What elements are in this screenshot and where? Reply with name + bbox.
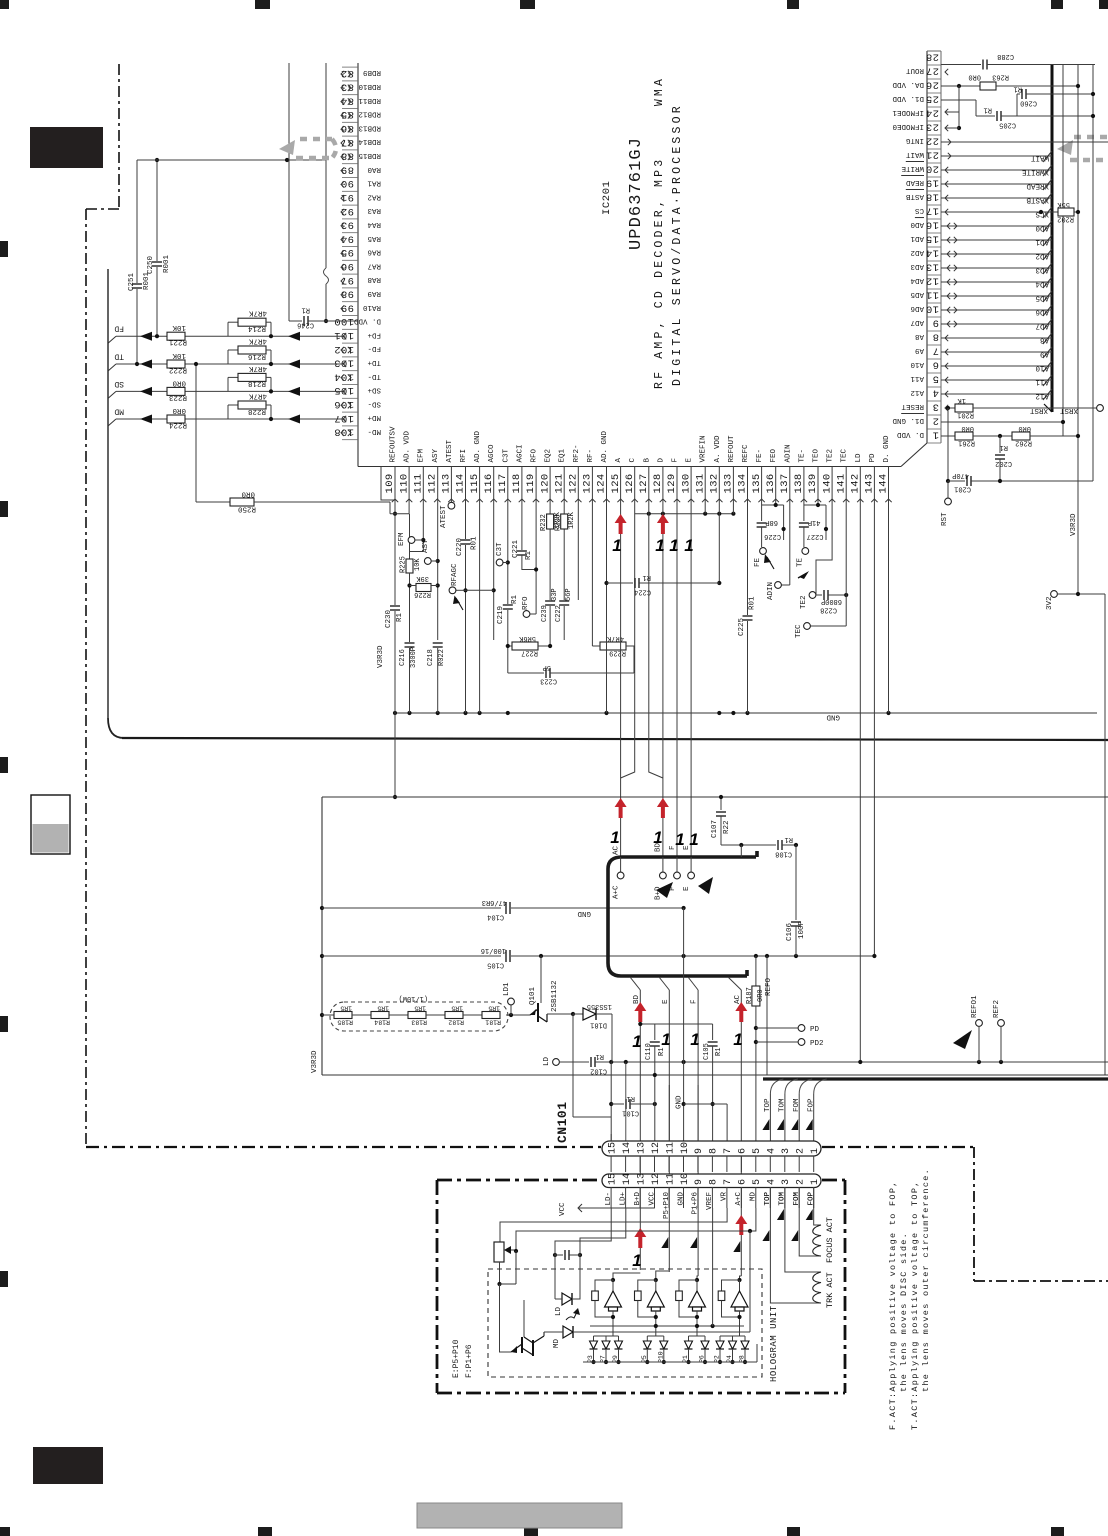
svg-text:R201: R201	[957, 411, 974, 419]
monitor diode MD	[563, 1326, 573, 1338]
svg-text:8: 8	[709, 1148, 720, 1154]
capacitor C260 R1	[1016, 94, 1018, 116]
svg-text:ASY: ASY	[422, 539, 430, 553]
svg-text:132: 132	[709, 473, 721, 493]
capacitor laser decoupling	[553, 1253, 557, 1257]
svg-text:C3T: C3T	[496, 542, 504, 556]
analog block bottom edge	[322, 1074, 1108, 1076]
svg-text:PD: PD	[869, 453, 877, 463]
svg-text:1: 1	[733, 1030, 742, 1049]
svg-text:5R6K: 5R6K	[518, 634, 536, 642]
wire Q101 emitter to CN14	[572, 1014, 574, 1117]
svg-text:AD2: AD2	[1035, 252, 1049, 260]
wire pin134 REFC / capacitor C225 R01	[747, 467, 749, 714]
capacitor C223 5P loop	[508, 672, 544, 674]
svg-text:RA10: RA10	[362, 303, 381, 311]
resistor R181 1R5	[482, 1012, 500, 1019]
photodiode P10	[663, 1336, 665, 1341]
wire pin139 TEO	[817, 467, 819, 506]
svg-text:R1: R1	[302, 306, 310, 314]
connector CN101 row1	[602, 1141, 821, 1156]
capacitor C101 R1 net	[610, 1062, 612, 1143]
svg-text:RA2: RA2	[367, 192, 381, 200]
laser diode LD	[554, 1294, 556, 1299]
svg-text:114: 114	[455, 473, 467, 493]
svg-text:C227: C227	[807, 532, 824, 540]
svg-text:4R7K: 4R7K	[248, 337, 267, 345]
svg-text:AD7: AD7	[1035, 322, 1049, 330]
svg-text:1R5: 1R5	[340, 1005, 352, 1012]
wire pin112 ASY / terminal ASY	[437, 467, 439, 641]
svg-text:R183: R183	[411, 1019, 427, 1026]
svg-text:the lens moves DISC side.: the lens moves DISC side.	[899, 1232, 909, 1392]
photodiode common rail	[583, 1361, 757, 1363]
oval resistor pack R181-R185 1R5 (1/10W)	[330, 1002, 508, 1031]
svg-text:AD0: AD0	[1035, 224, 1049, 232]
svg-text:MD: MD	[114, 407, 124, 416]
svg-text:5P: 5P	[543, 663, 551, 671]
wire LD- route	[610, 1134, 612, 1141]
wire pin136 FEO	[775, 467, 777, 506]
svg-text:RA7: RA7	[367, 261, 381, 269]
svg-text:IFMODE0: IFMODE0	[892, 122, 924, 130]
red signal arrow A+C	[615, 798, 627, 818]
svg-text:3V2: 3V2	[1046, 596, 1054, 610]
svg-text:E: E	[683, 886, 691, 891]
svg-text:V3R3D: V3R3D	[377, 645, 385, 668]
wires CN101 row2 down stubs	[813, 1187, 815, 1208]
svg-text:AD5: AD5	[910, 290, 924, 298]
svg-text:REFO1: REFO1	[971, 995, 979, 1018]
svg-text:RDB9: RDB9	[363, 68, 381, 76]
capacitor C226 68P / terminal FE	[761, 467, 763, 522]
svg-text:1SS355: 1SS355	[587, 1002, 612, 1010]
svg-text:R261: R261	[958, 439, 975, 447]
svg-text:113: 113	[441, 473, 453, 493]
svg-text:A10: A10	[1035, 364, 1049, 372]
GND net line / capacitor C104 47/6R3	[322, 907, 501, 909]
svg-text:RA1: RA1	[367, 179, 381, 187]
resistor R214 4R7K	[228, 321, 238, 323]
svg-text:RDB10: RDB10	[358, 82, 381, 90]
amp cell at 739.5	[740, 1276, 742, 1280]
wire pin26 DA.VDD / resistor R263 0R0	[945, 69, 948, 75]
long horizontal net line lower	[122, 738, 1108, 740]
svg-text:AD2: AD2	[910, 248, 924, 256]
svg-text:119: 119	[525, 473, 537, 493]
svg-text:F:P1+P6: F:P1+P6	[465, 1344, 474, 1378]
wire pin143 PD long	[873, 467, 875, 957]
registration marks bottom edge	[0, 1527, 10, 1536]
capacitor C250 R001 branch	[156, 160, 158, 336]
svg-text:C224: C224	[634, 588, 651, 596]
svg-text:R184: R184	[374, 1019, 390, 1026]
wire MD to APC net	[573, 1331, 750, 1333]
svg-text:RFO: RFO	[522, 596, 530, 610]
resistor R187 0R0 REFO	[755, 956, 757, 986]
wire pin124 AD.GND	[606, 467, 608, 714]
wire pin130 E	[690, 467, 692, 858]
op-amp? no - IC U IC201 UPD63761GJ body outline	[357, 63, 359, 467]
IC right pin separators	[927, 50, 941, 52]
svg-text:ADIN: ADIN	[784, 444, 792, 462]
svg-text:10K: 10K	[172, 351, 186, 359]
wire pin127 B	[649, 467, 663, 779]
pickup unit border dash-dot box	[437, 1179, 602, 1182]
svg-text:C225: C225	[738, 617, 746, 636]
photodiode P4	[732, 1336, 734, 1341]
svg-text:18: 18	[926, 191, 939, 203]
svg-text:XREAD: XREAD	[1026, 182, 1049, 190]
svg-text:RA3: RA3	[367, 206, 381, 214]
svg-text:A12: A12	[1035, 392, 1049, 400]
terminal 3V2 net	[1051, 591, 1058, 598]
svg-text:R262: R262	[1015, 439, 1032, 447]
wire pin141 TEC / terminal TEC	[845, 467, 847, 627]
svg-text:R229: R229	[609, 649, 626, 657]
svg-text:ATEST: ATEST	[440, 505, 448, 528]
svg-text:135: 135	[751, 473, 763, 493]
svg-text:FD: FD	[114, 324, 124, 333]
svg-text:126: 126	[624, 473, 636, 493]
svg-text:AD1: AD1	[1035, 238, 1049, 246]
svg-text:A11: A11	[1035, 378, 1049, 386]
wire SD+	[116, 390, 342, 392]
svg-text:EQ1: EQ1	[559, 448, 567, 462]
svg-text:B+D: B+D	[634, 1192, 642, 1206]
svg-text:AD. GND: AD. GND	[474, 430, 482, 462]
svg-text:TEC: TEC	[841, 448, 849, 462]
svg-text:RDB15: RDB15	[358, 151, 381, 159]
svg-text:1: 1	[690, 1030, 699, 1049]
svg-text:FOP: FOP	[808, 1192, 816, 1206]
svg-text:7: 7	[932, 345, 939, 357]
svg-text:109: 109	[384, 473, 396, 493]
TOP TOM FOM FOP breakouts	[770, 1079, 783, 1094]
svg-text:C105: C105	[487, 961, 504, 969]
svg-text:C108: C108	[775, 850, 792, 858]
svg-text:C110: C110	[645, 1043, 653, 1060]
svg-text:55K: 55K	[1057, 200, 1070, 208]
svg-text:0R0: 0R0	[961, 424, 974, 432]
svg-text:A8: A8	[1040, 336, 1049, 344]
svg-text:134: 134	[737, 473, 749, 493]
svg-text:1R5: 1R5	[488, 1005, 500, 1012]
svg-text:R222: R222	[169, 366, 187, 374]
svg-text:TD-: TD-	[367, 372, 381, 380]
svg-text:V3R3D: V3R3D	[311, 1050, 319, 1073]
svg-text:1R5: 1R5	[414, 1005, 426, 1012]
arrow marker on FD wire right	[288, 332, 300, 341]
svg-text:SD-: SD-	[367, 399, 381, 407]
net XRST right of bus to terminal	[1052, 407, 1097, 409]
wire pin110 AD.VDD	[408, 467, 410, 514]
photodiode P1	[688, 1336, 690, 1341]
svg-text:Q101: Q101	[529, 986, 537, 1005]
svg-text:6: 6	[738, 1179, 749, 1185]
svg-text:R221: R221	[168, 338, 187, 346]
svg-text:120: 120	[539, 473, 551, 493]
svg-text:DA. VDD: DA. VDD	[892, 80, 924, 88]
svg-text:5: 5	[752, 1179, 763, 1185]
svg-text:ATEST: ATEST	[446, 439, 454, 462]
gray revision bar bottom center	[417, 1503, 622, 1528]
svg-text:CN101: CN101	[555, 1101, 570, 1143]
svg-text:C107: C107	[711, 820, 719, 838]
svg-text:C288: C288	[997, 52, 1014, 60]
svg-text:1R5: 1R5	[377, 1005, 389, 1012]
svg-text:R227: R227	[521, 649, 538, 657]
svg-text:15: 15	[607, 1173, 618, 1185]
svg-text:A12: A12	[910, 388, 924, 396]
net XASTB wire to bus	[941, 197, 1052, 199]
svg-text:FE-: FE-	[756, 449, 764, 463]
net MD branch from bus	[108, 419, 116, 426]
wire E to CN101 pin11	[668, 990, 670, 1272]
resistor R226 39K	[416, 584, 431, 592]
amp cell at 697	[697, 1276, 698, 1280]
net XWRITE wire to bus	[941, 169, 1052, 171]
svg-text:7: 7	[723, 1179, 734, 1185]
svg-text:MD: MD	[553, 1338, 561, 1348]
wire AD.VDD filter branch	[409, 514, 411, 559]
svg-text:RDB11: RDB11	[358, 96, 381, 104]
svg-text:A. VDD: A. VDD	[714, 435, 722, 463]
net TD branch from bus	[108, 364, 116, 371]
svg-text:P10: P10	[657, 1351, 664, 1363]
svg-text:ASTB: ASTB	[905, 192, 924, 200]
svg-text:VREF: VREF	[706, 1192, 714, 1210]
wire pin109 REFOUTSV V3R3D rail	[381, 467, 395, 501]
fold mark box left	[31, 795, 70, 854]
svg-text:R1: R1	[1000, 443, 1008, 451]
svg-text:C222: C222	[555, 605, 563, 622]
junction wire below pins 126-133	[635, 513, 734, 515]
svg-text:SD+: SD+	[367, 386, 381, 394]
resistor R225 10K	[406, 559, 413, 573]
wire pin1 D.VDD / resistors R261 R262 0R0	[941, 435, 955, 437]
svg-text:133: 133	[723, 473, 735, 493]
bundle breakout diagonals BD/E/F/AC	[630, 977, 640, 990]
svg-text:RFI: RFI	[460, 449, 468, 463]
svg-text:C216: C216	[399, 649, 407, 666]
arrow marker on SD wire right	[288, 387, 300, 396]
svg-text:AD. GND: AD. GND	[601, 430, 609, 462]
supply rail vertical x1063	[1062, 64, 1064, 436]
svg-text:TE2: TE2	[800, 595, 808, 609]
svg-text:5: 5	[752, 1148, 763, 1154]
svg-text:REF2: REF2	[993, 1000, 1001, 1018]
svg-text:C205: C205	[999, 121, 1016, 129]
capacitor C108 R1 net	[721, 844, 776, 846]
svg-text:LD: LD	[543, 1056, 551, 1066]
svg-text:11: 11	[665, 1142, 676, 1154]
transistor Q laser APC	[521, 1337, 523, 1353]
svg-text:C221: C221	[512, 539, 520, 558]
net AD6 wire to bus	[941, 309, 1052, 311]
svg-text:LD+: LD+	[619, 1192, 627, 1206]
svg-text:1: 1	[655, 536, 664, 555]
capacitor C205 R1	[976, 115, 995, 117]
wire pin119 RFO / terminal RFO	[535, 467, 537, 615]
arrow marker on MD wire right	[288, 415, 300, 424]
red signal arrow BD lower	[634, 1228, 646, 1248]
svg-text:124: 124	[596, 473, 608, 493]
svg-text:AD5: AD5	[1035, 294, 1049, 302]
terminal PD2	[756, 1041, 798, 1043]
svg-text:VR: VR	[721, 1192, 729, 1202]
svg-text:R022: R022	[438, 649, 446, 666]
svg-text:R216: R216	[247, 352, 266, 360]
svg-text:RESET: RESET	[901, 402, 924, 410]
svg-text:FOCUS ACT: FOCUS ACT	[825, 1217, 835, 1263]
wire DA.VDD to IFMODE0	[958, 86, 960, 128]
wire top horizontal net	[137, 159, 326, 161]
svg-text:RF AMP, CD DECODER, MP3 WM: RF AMP, CD DECODER, MP3 WMA	[653, 76, 666, 389]
svg-text:FOP: FOP	[808, 1098, 816, 1112]
svg-text:C: C	[629, 458, 637, 463]
svg-text:R214: R214	[247, 324, 266, 332]
wire F to CN101 pin9	[697, 990, 699, 1276]
svg-text:A8: A8	[915, 332, 924, 340]
svg-text:A9: A9	[915, 346, 924, 354]
svg-text:4R7K: 4R7K	[248, 392, 267, 400]
svg-text:INTG: INTG	[905, 136, 924, 144]
svg-text:144: 144	[878, 473, 890, 493]
svg-text:16: 16	[926, 219, 939, 231]
capacitor C227 41P / terminal TE	[803, 467, 805, 522]
svg-text:RA5: RA5	[367, 234, 381, 242]
terminal RFAGC	[456, 589, 466, 591]
svg-text:C201: C201	[954, 485, 971, 493]
resistor R202 55K pull-up on XCS	[1039, 210, 1043, 214]
svg-text:RF2-: RF2-	[573, 444, 581, 462]
terminal LD1	[509, 1013, 513, 1017]
wire pin137 ADIN / terminal ADIN	[789, 467, 791, 586]
svg-text:17: 17	[926, 205, 939, 217]
svg-text:REFOUTSV: REFOUTSV	[390, 426, 398, 463]
svg-text:1K: 1K	[957, 396, 966, 404]
svg-text:D181: D181	[590, 1021, 607, 1029]
svg-text:3: 3	[781, 1179, 792, 1185]
svg-text:112: 112	[427, 473, 439, 493]
svg-text:UPD63761GJ: UPD63761GJ	[627, 137, 646, 250]
resistor R183 1R5	[408, 1012, 426, 1019]
svg-text:RST: RST	[941, 512, 949, 526]
svg-text:LD-: LD-	[605, 1192, 613, 1206]
svg-text:9: 9	[694, 1148, 705, 1154]
svg-text:T.ACT:Applying positive voltag: T.ACT:Applying positive voltage to TOP,	[910, 1180, 920, 1430]
svg-text:D1. GND: D1. GND	[892, 416, 924, 424]
wire AC to CN101 pin6	[740, 845, 742, 857]
svg-text:R226: R226	[414, 590, 431, 598]
net AD1 wire to bus	[941, 239, 1052, 241]
net WAIT wire to bus	[941, 155, 1052, 157]
arrow marker on TD wire left	[140, 360, 152, 369]
svg-text:VCC: VCC	[559, 1202, 567, 1216]
resistor R224 0R0	[167, 415, 185, 423]
arrow marker on SD wire left	[140, 387, 152, 396]
svg-text:6: 6	[738, 1148, 749, 1154]
svg-text:22: 22	[926, 135, 939, 147]
wire pin117 C3T / terminal C3T	[507, 467, 509, 674]
svg-text:2: 2	[796, 1148, 807, 1154]
wire pin128 D	[662, 467, 664, 858]
svg-text:TD: TD	[114, 352, 124, 361]
svg-text:RA0: RA0	[367, 165, 381, 173]
wire EFM jog to R225	[410, 551, 424, 553]
coil FOCUS ACT	[813, 1225, 821, 1256]
wire pin116 AGCO	[493, 467, 495, 641]
svg-text:10K: 10K	[172, 323, 186, 331]
svg-text:0R0: 0R0	[241, 490, 255, 498]
svg-text:B: B	[643, 458, 651, 463]
svg-text:DIGITAL SERVO/DATA·PROCESSOR: DIGITAL SERVO/DATA·PROCESSOR	[671, 103, 684, 386]
net VREF rail in hologram	[590, 1325, 744, 1327]
svg-text:R1: R1	[511, 594, 519, 604]
svg-text:EQ2: EQ2	[545, 449, 553, 463]
svg-text:R225: R225	[400, 556, 408, 573]
svg-text:R187: R187	[746, 987, 754, 1004]
svg-text:TE2: TE2	[827, 449, 835, 463]
svg-text:EFM: EFM	[398, 532, 406, 546]
svg-text:XASTB: XASTB	[1026, 196, 1049, 204]
svg-text:142: 142	[850, 473, 862, 493]
svg-text:RA8: RA8	[367, 275, 381, 283]
terminal B+D	[662, 857, 664, 872]
analog block top edge	[322, 796, 1108, 798]
svg-text:AD3: AD3	[1035, 266, 1049, 274]
svg-text:8: 8	[932, 331, 939, 343]
svg-text:C104: C104	[487, 913, 504, 921]
capacitor C202 R1	[999, 436, 1001, 453]
svg-text:C220: C220	[456, 537, 464, 556]
svg-text:VREFIN: VREFIN	[700, 435, 708, 462]
wire pin28 / capacitor C288	[941, 64, 981, 66]
svg-text:4: 4	[767, 1179, 778, 1185]
annotation arrow TE	[799, 571, 809, 579]
net A10 wire to bus	[941, 365, 1052, 367]
capacitor C219 R1	[502, 604, 514, 610]
annotation arrow to RFAGC	[456, 598, 463, 610]
svg-text:LD: LD	[855, 453, 863, 463]
svg-text:TEO: TEO	[813, 448, 821, 462]
svg-text:D1. VDD: D1. VDD	[892, 94, 924, 102]
resistor R221 10K	[167, 332, 185, 340]
capacitor C218 R022	[432, 642, 444, 648]
svg-text:1: 1	[610, 828, 619, 847]
registration tabs left edge	[0, 241, 8, 257]
svg-text:R1: R1	[643, 573, 651, 581]
svg-text:GND: GND	[826, 713, 840, 721]
IC left pin separators	[342, 66, 358, 68]
annotation arrow F	[656, 882, 673, 898]
svg-text:AD0: AD0	[910, 220, 924, 228]
terminal REFO1	[976, 1020, 983, 1027]
svg-text:A10: A10	[910, 360, 924, 368]
gray page-link arrow left	[300, 137, 332, 142]
svg-text:1: 1	[810, 1179, 821, 1185]
svg-text:ADIN: ADIN	[767, 582, 775, 600]
svg-text:470P: 470P	[952, 471, 969, 479]
red signal arrow pin128 D	[657, 514, 669, 534]
svg-text:XWRITE: XWRITE	[1021, 168, 1049, 176]
svg-text:HOLOGRAM UNIT: HOLOGRAM UNIT	[769, 1305, 779, 1382]
LD net line / terminal LD / capacitor C102 R1	[553, 1059, 560, 1066]
net A11 wire to bus	[941, 379, 1052, 381]
lead arrows E F lower	[661, 1237, 668, 1248]
wire REFO	[766, 956, 768, 1075]
